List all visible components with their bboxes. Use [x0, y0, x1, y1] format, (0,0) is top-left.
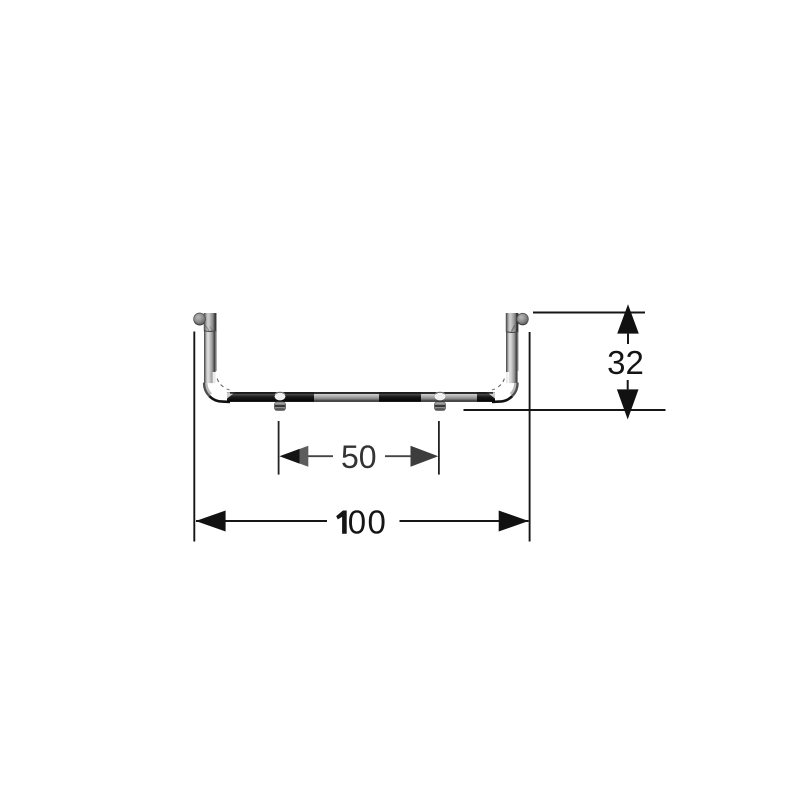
mounting clip highlight left — [275, 392, 286, 400]
dimension line 32 bottom — [464, 409, 666, 411]
screw 2 — [435, 402, 446, 410]
dimension line 100 right segment — [400, 520, 529, 522]
extension line right (50) — [438, 421, 440, 475]
rail: left end knob — [194, 313, 206, 325]
screw 1 — [275, 402, 286, 410]
dimension line 50 right segment — [385, 455, 411, 457]
rail: right vertical tube — [506, 313, 519, 383]
rail: right bend — [492, 379, 518, 402]
mounting clip highlight right — [435, 392, 446, 400]
svg-text:00: 00 — [348, 504, 388, 541]
rail: right collar — [506, 313, 519, 332]
rail: left collar — [204, 313, 216, 331]
rail: left vertical tube — [204, 313, 217, 383]
extension line right (100/32) — [529, 332, 531, 542]
svg-text:32: 32 — [607, 344, 644, 381]
rail: left bend — [204, 379, 230, 402]
arrow 32 down — [617, 389, 639, 419]
label 100 — [336, 511, 347, 534]
rail: right end knob — [517, 313, 528, 324]
dimension line 50 left segment — [308, 455, 333, 457]
arrow 100 left — [196, 511, 226, 532]
svg-text:50: 50 — [341, 439, 377, 475]
extension line left (100) — [193, 332, 195, 542]
arrow 100 right — [499, 511, 529, 532]
arrow 50 left — [280, 446, 309, 467]
dimension line 100 left segment — [196, 520, 327, 522]
extension line left (50) — [278, 421, 280, 475]
arrow 32 up — [617, 304, 639, 333]
dimension line 32 top — [533, 312, 645, 314]
arrow 50 right — [411, 446, 439, 467]
rail: horizontal tube — [227, 392, 495, 402]
